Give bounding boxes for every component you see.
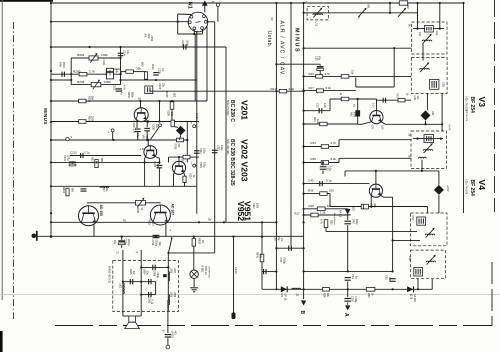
- capacitor C42: [344, 221, 351, 224]
- resistor R36: [320, 192, 327, 196]
- wire T1 internal: [413, 28, 444, 30]
- wire L940: [233, 237, 235, 313]
- wire bus Ustab: [275, 3, 277, 289]
- resistor R952 vertical: [193, 237, 195, 239]
- wire rail y186: [51, 185, 197, 187]
- capacitor C208 on V201 emitter: [146, 120, 148, 127]
- svg-text:C214: C214: [199, 148, 202, 154]
- wire T2 bottom to diode: [426, 93, 428, 110]
- svg-text:C56: C56: [408, 256, 411, 261]
- svg-text:1.8n: 1.8n: [156, 164, 159, 169]
- svg-text:ALR / AVC / CAV: ALR / AVC / CAV: [279, 21, 285, 76]
- svg-text:100n: 100n: [147, 34, 150, 40]
- svg-text:6.3V: 6.3V: [353, 112, 356, 117]
- resistor R200: [79, 72, 87, 76]
- resistor R18: [341, 97, 349, 101]
- wire V3 base up: [376, 99, 378, 111]
- svg-text:47µ: 47µ: [126, 50, 129, 55]
- resistor R212: [66, 188, 69, 196]
- connector pin: [188, 21, 191, 24]
- svg-text:V201: V201: [240, 100, 250, 120]
- inductor L21 tunable: [422, 40, 432, 41]
- inductor L905: [168, 295, 169, 305]
- wire R202 right: [133, 71, 146, 73]
- svg-text:220: 220: [329, 189, 334, 193]
- svg-text:D 3: D 3: [409, 294, 413, 299]
- transistor V952 AD167: [150, 205, 170, 225]
- arrow B minus out: [303, 289, 305, 299]
- wire y271 rail: [304, 270, 393, 272]
- resistor R211: [95, 160, 98, 168]
- capacitor C30 electrolytic: [317, 67, 324, 71]
- svg-text:AD 155: AD 155: [99, 205, 103, 217]
- capacitor C210: [81, 153, 83, 158]
- wire y193 R36: [304, 193, 330, 195]
- resistor vertical R203: [144, 72, 147, 79]
- IF transformer T5 dashed box: [411, 250, 446, 279]
- capacitor C214 on x196: [194, 151, 200, 153]
- svg-text:AA118: AA118: [339, 210, 342, 218]
- resistor R27: [311, 213, 318, 217]
- resistor R17: [316, 89, 323, 92]
- svg-text:(WA): (WA): [105, 70, 108, 76]
- svg-text:18n: 18n: [388, 277, 391, 282]
- wire vertical x214: [214, 22, 216, 253]
- wire speaker lead b: [135, 315, 141, 317]
- terminal on x196 upper: [195, 125, 197, 127]
- resistor R13: [320, 122, 327, 126]
- diode D1: [281, 286, 287, 292]
- wire connector pin down left: [194, 34, 196, 101]
- svg-text:BF 254: BF 254: [469, 180, 475, 197]
- wire x394 down: [393, 48, 395, 87]
- resistor R207: [183, 155, 190, 159]
- svg-text:N1: N1: [187, 2, 193, 9]
- svg-text:C217: C217: [102, 186, 105, 192]
- capacitor C200 and arrow A: [344, 299, 351, 302]
- svg-text:1.8V: 1.8V: [140, 147, 146, 151]
- svg-text:0.1µ: 0.1µ: [151, 300, 154, 305]
- svg-text:1,68 3PS 360: 1,68 3PS 360: [207, 266, 209, 279]
- svg-text:9013: 9013: [108, 70, 111, 76]
- wire T3 internal: [413, 138, 443, 140]
- wire C30 feed: [276, 63, 320, 65]
- capacitor C20: [322, 163, 324, 166]
- wire x357 lower: [357, 117, 359, 125]
- svg-text:L11: L11: [314, 22, 318, 27]
- svg-text:R/O: R/O: [141, 62, 144, 67]
- svg-text:R34: R34: [323, 293, 326, 298]
- svg-text:9V: 9V: [208, 218, 212, 222]
- wire box top bus: [141, 266, 168, 268]
- svg-text:4.2V: 4.2V: [370, 124, 373, 129]
- svg-text:L21: L21: [418, 32, 422, 37]
- wire T5 bottom pin: [417, 279, 419, 290]
- wire x339 jog a: [338, 140, 340, 147]
- wire main supply bus: [50, 3, 52, 238]
- svg-text:MINUS: MINUS: [43, 108, 48, 125]
- component C203 block: [145, 86, 153, 94]
- svg-text:4.7k: 4.7k: [325, 72, 331, 76]
- wire V3 left leg: [362, 122, 372, 125]
- wire jack upper: [167, 300, 169, 333]
- capacitor C905: [130, 279, 132, 284]
- wire x357 upper: [357, 99, 359, 110]
- svg-text:V4: V4: [477, 180, 487, 191]
- svg-text:100n: 100n: [186, 40, 190, 46]
- connector pin: [204, 20, 207, 23]
- wire x347 b: [347, 225, 349, 271]
- svg-text:L904: L904: [173, 268, 176, 274]
- svg-text:B: B: [299, 311, 305, 315]
- junction bus at y21.7: [50, 21, 52, 23]
- connector pin: [201, 27, 204, 30]
- switch selector: [151, 126, 160, 139]
- svg-text:680k: 680k: [130, 92, 133, 98]
- junction bus at y71: [50, 70, 52, 72]
- wire branch right leg: [120, 48, 122, 85]
- wire R202 left: [121, 71, 126, 73]
- svg-text:MW: MW: [142, 135, 145, 140]
- wire arrow to connector: [204, 5, 206, 12]
- svg-text:R16: R16: [309, 72, 315, 76]
- module B950 dashed box: [113, 261, 179, 312]
- inductor L940 slug: [232, 313, 236, 320]
- svg-text:L940: L940: [234, 267, 238, 274]
- svg-text:9013: 9013: [62, 62, 66, 68]
- svg-text:40B3: 40B3: [150, 36, 153, 42]
- svg-text:47µ: 47µ: [318, 56, 321, 61]
- svg-text:220µ: 220µ: [67, 155, 70, 161]
- wire y231 to T4: [326, 231, 417, 233]
- svg-text:1.2k: 1.2k: [320, 210, 326, 214]
- connector pin: [193, 27, 196, 30]
- svg-text:V952: V952: [236, 201, 246, 221]
- trimmer M1: [359, 9, 366, 17]
- wire R203 to rail: [145, 78, 147, 81]
- capacitor C200: [62, 72, 64, 77]
- svg-text:A/K: A/K: [144, 34, 147, 38]
- inductor L51b: [292, 288, 301, 289]
- switch S901 power: [168, 239, 171, 253]
- wire V203 base up: [178, 157, 180, 161]
- capacitor C202: [116, 89, 122, 91]
- svg-text:M2: M2: [406, 5, 410, 9]
- svg-text:R28: R28: [309, 204, 315, 208]
- inductor L22 tunable: [420, 69, 430, 70]
- junction bus at y47: [50, 46, 52, 48]
- svg-text:C42: C42: [352, 219, 355, 224]
- potentiometer R951: [136, 201, 146, 206]
- junction at x177: [177, 21, 179, 23]
- svg-text:C13: C13: [316, 103, 319, 108]
- wire diamond to rail: [180, 135, 181, 140]
- svg-text:R209: R209: [87, 116, 90, 123]
- inductor L31 tunable: [423, 150, 433, 151]
- svg-text:C201: C201: [102, 60, 105, 67]
- svg-text:OF 15: OF 15: [283, 294, 286, 301]
- svg-text:BC 328-25: BC 328-25: [229, 162, 235, 186]
- wire y157 left leg: [168, 157, 170, 162]
- wire top rail into T1: [439, 3, 441, 29]
- svg-text:+0.4V: +0.4V: [448, 124, 451, 131]
- junction bus at y101: [50, 100, 52, 102]
- wire V201 base up: [140, 101, 142, 108]
- wire x442 link: [441, 93, 443, 131]
- capacitor C55: [390, 279, 396, 282]
- svg-text:1.5V: 1.5V: [381, 125, 384, 130]
- capacitor C211 electrolytic: [69, 162, 76, 166]
- svg-text:+0.5V: +0.5V: [446, 185, 449, 192]
- diode D41 diamond: [434, 185, 444, 195]
- wire terminal b down: [217, 6, 219, 21]
- transformer T4 windings: [417, 217, 426, 225]
- svg-text:100k: 100k: [101, 53, 108, 57]
- potentiometer R204: [91, 82, 101, 86]
- svg-text:100µ: 100µ: [203, 148, 206, 154]
- IF transformer T4 dashed box: [411, 213, 448, 246]
- trimmer M2: [398, 9, 405, 17]
- svg-text:C215: C215: [217, 145, 220, 151]
- speaker: [129, 316, 136, 322]
- svg-text:0.1µ: 0.1µ: [85, 150, 91, 154]
- junction bus at y80: [50, 79, 52, 81]
- wire y124 link: [426, 123, 443, 125]
- capacitor C903: [149, 292, 151, 297]
- inductor L32: [418, 157, 426, 158]
- svg-text:12k: 12k: [327, 204, 332, 208]
- lamp B901: [190, 270, 198, 278]
- faint fold line: [0, 294, 500, 296]
- wire x159 link: [159, 101, 161, 122]
- wire rail y80 left: [51, 79, 71, 81]
- component C44 block: [361, 204, 368, 209]
- svg-text:C51: C51: [411, 216, 414, 221]
- wire x347 a: [347, 215, 349, 220]
- svg-text:0.1V: 0.1V: [372, 103, 374, 108]
- resistor R205: [79, 99, 86, 103]
- svg-text:R201: R201: [77, 53, 85, 57]
- svg-text:8.2k: 8.2k: [316, 119, 319, 124]
- transistor V203: [172, 161, 185, 174]
- wire connector pin down right: [206, 26, 208, 102]
- IF transformer T3 dashed box: [411, 131, 446, 169]
- wire y124 V3 base net: [304, 123, 358, 125]
- svg-text:M1: M1: [367, 5, 371, 9]
- svg-text:R36: R36: [308, 189, 314, 193]
- wire terminal stub: [112, 132, 114, 140]
- svg-text:R210: R210: [127, 92, 130, 99]
- svg-text:2200p: 2200p: [155, 240, 158, 247]
- wire vertical x196: [196, 31, 198, 214]
- capacitor C220 electrolytic: [121, 237, 123, 240]
- wire box mid bus: [123, 281, 156, 283]
- wire x427 to T4: [427, 207, 429, 214]
- svg-text:R208: R208: [167, 110, 170, 116]
- wire x438 lower: [438, 195, 440, 213]
- wire long vertical x226: [225, 47, 227, 222]
- svg-text:3.3k: 3.3k: [326, 86, 332, 90]
- junction bus at y222.3: [50, 221, 52, 223]
- svg-text:h21e 180-460: h21e 180-460: [226, 139, 229, 155]
- svg-text:R21: R21: [271, 87, 277, 91]
- resistor R25: [321, 161, 328, 165]
- svg-text:680: 680: [100, 158, 103, 163]
- wire y289 rail: [262, 288, 432, 290]
- svg-text:R27: R27: [294, 212, 300, 216]
- capacitor C902: [149, 279, 151, 284]
- svg-text:R202: R202: [114, 67, 122, 71]
- inductor L201: [100, 187, 109, 188]
- svg-text:R942: R942: [252, 203, 255, 209]
- wire x330 link: [329, 99, 331, 111]
- svg-text:C210: C210: [70, 150, 77, 154]
- svg-text:R951: R951: [136, 208, 139, 215]
- resistor R209: [79, 120, 86, 124]
- wire y206: [330, 206, 428, 208]
- svg-text:5.6k: 5.6k: [170, 112, 173, 117]
- transformer T5 windings: [414, 267, 423, 276]
- svg-text:0.68µ: 0.68µ: [282, 258, 286, 265]
- svg-text:16V: 16V: [158, 242, 161, 247]
- svg-text:Bereichsum.: Bereichsum.: [333, 213, 336, 226]
- wire y170 V4 collector: [345, 170, 439, 172]
- junction bus at y140: [50, 139, 52, 141]
- svg-text:R17: R17: [309, 86, 315, 90]
- transformer T1 windings: [425, 25, 434, 32]
- wire to NW pin: [178, 13, 191, 16]
- wire R201 branch: [71, 57, 120, 59]
- svg-text:C208: C208: [152, 124, 155, 130]
- diode D2: [345, 209, 351, 215]
- svg-text:B 901: B 901: [201, 266, 205, 274]
- capacitor C204: [153, 73, 159, 75]
- svg-text:2.7k: 2.7k: [89, 69, 95, 73]
- svg-text:+A: +A: [162, 330, 165, 333]
- resistor R30 vertical: [325, 215, 327, 219]
- wire y240: [393, 239, 420, 241]
- resistor R941: [260, 254, 264, 262]
- svg-text:R952: R952: [198, 238, 201, 245]
- svg-text:255 744 078: 255 744 078: [465, 110, 467, 122]
- wire y74 branch: [51, 73, 121, 75]
- wire rail y101: [51, 100, 207, 102]
- svg-text:C200: C200: [351, 296, 354, 303]
- wire V202 base up: [147, 140, 149, 146]
- svg-text:R/W: R/W: [59, 62, 63, 68]
- wire R30 down: [325, 228, 327, 232]
- svg-text:AA 118: AA 118: [413, 294, 416, 302]
- wire rail y162: [51, 161, 159, 163]
- resistor R16: [316, 75, 323, 78]
- junction top rail right corner: [462, 2, 464, 4]
- capacitor C213: [157, 165, 163, 168]
- transformer T2 windings: [430, 80, 439, 90]
- wire y248 C36 link: [276, 247, 303, 249]
- wire x432 up: [431, 279, 433, 290]
- diode D3: [407, 286, 413, 292]
- resistor R31 in top rail: [399, 1, 407, 5]
- wire into box x141: [140, 250, 142, 316]
- wire to lamp: [193, 246, 195, 270]
- connector center mark: [196, 22, 201, 23]
- svg-text:100k: 100k: [104, 80, 111, 84]
- diode D201 diamond: [176, 126, 186, 136]
- capacitor C215 on x214: [212, 150, 218, 152]
- junction bus at y162.4: [50, 161, 52, 163]
- resistor R34: [323, 288, 330, 292]
- svg-text:1V: 1V: [280, 238, 284, 241]
- svg-text:C26: C26: [442, 82, 446, 87]
- svg-text:C903: C903: [147, 298, 150, 304]
- wire R31 branch left leg: [389, 3, 391, 13]
- svg-text:C30: C30: [314, 56, 317, 61]
- wire V3 right leg to y124: [381, 122, 385, 125]
- wire connector bottom loop: [178, 33, 203, 35]
- chassis ground symbol: [32, 234, 37, 239]
- capacitor C40: [320, 181, 323, 186]
- wire right vertical rail: [463, 3, 465, 213]
- svg-text:0.33µ: 0.33µ: [354, 296, 357, 303]
- wire y208 R28: [304, 208, 348, 210]
- inductor L902 slug: [163, 274, 167, 277]
- wire T3 inner stub: [421, 160, 423, 171]
- resistor R202: [126, 70, 134, 73]
- wire y157 R207: [169, 156, 200, 158]
- wire rail y237 ground rail: [34, 235, 304, 237]
- wire y76 to T2: [304, 75, 412, 77]
- svg-text:51k: 51k: [351, 70, 355, 75]
- capacitor C906: [153, 265, 155, 270]
- svg-text:8.2n: 8.2n: [323, 103, 326, 108]
- diode D21 diamond: [421, 110, 431, 120]
- capacitor C216: [153, 235, 160, 237]
- svg-text:L905: L905: [170, 292, 173, 298]
- svg-text:C211: C211: [63, 155, 66, 161]
- inductor L61 tunable: [426, 261, 436, 262]
- wire connector east pin: [207, 21, 215, 23]
- wire y87: [356, 86, 394, 88]
- svg-text:h21e 270-520: h21e 270-520: [226, 100, 229, 116]
- svg-text:4.7n: 4.7n: [123, 85, 126, 90]
- wire V202 left leg down: [145, 157, 146, 159]
- wire x330 down: [329, 194, 331, 207]
- svg-text:R206: R206: [165, 92, 168, 99]
- svg-text:L906: L906: [173, 292, 176, 298]
- svg-text:V3: V3: [477, 97, 487, 108]
- wire T1 left leg: [417, 13, 419, 29]
- junction bus at y3: [50, 2, 52, 4]
- svg-text:4Ω: 4Ω: [174, 331, 178, 334]
- svg-text:2.2k: 2.2k: [289, 87, 295, 91]
- transistor V201: [134, 108, 148, 122]
- svg-text:820: 820: [173, 93, 176, 98]
- svg-text:10n: 10n: [132, 271, 135, 276]
- scan artifact left page edge line: [1, 0, 3, 300]
- wire jack lower: [167, 338, 169, 345]
- wire y139 to T3: [339, 139, 412, 141]
- wire V202 emitter down: [155, 157, 160, 159]
- svg-text:R30: R30: [330, 220, 333, 225]
- wire y90: [304, 90, 356, 92]
- resistor R209b on rail: [176, 138, 183, 142]
- wire y252 switch to x214: [168, 252, 214, 254]
- capacitor C34: [347, 271, 349, 276]
- terminal on x196 lower: [195, 165, 197, 167]
- svg-text:R211: R211: [91, 157, 94, 163]
- wire y183 V4 base: [304, 183, 370, 185]
- svg-text:R941: R941: [256, 252, 259, 259]
